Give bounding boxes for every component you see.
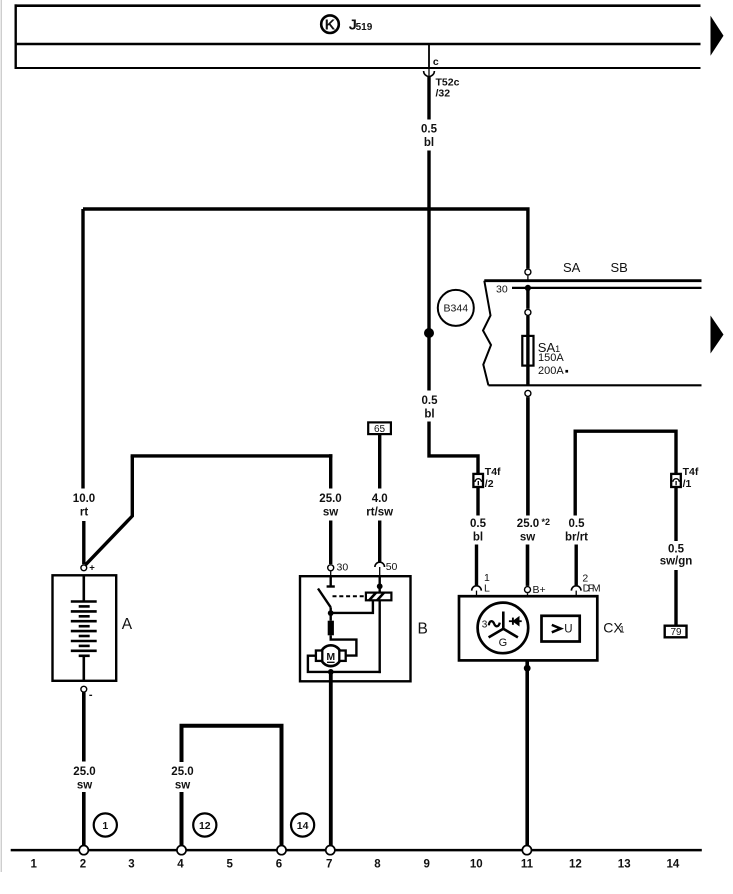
svg-text:12: 12: [569, 859, 582, 871]
coil through wire: [379, 586, 381, 673]
battery internal bottom lead: [83, 656, 86, 681]
svg-text:SB: SB: [611, 260, 628, 275]
svg-text:2: 2: [80, 859, 86, 871]
svg-text:sw/gn: sw/gn: [660, 556, 693, 568]
wire 10.0 rt left vertical: [81, 209, 84, 489]
wire 0.5 bl upper segment: [427, 77, 430, 120]
svg-text:4.0: 4.0: [372, 493, 388, 505]
svg-text:14: 14: [667, 859, 680, 871]
generator circle: [478, 603, 529, 654]
svg-text:rt: rt: [80, 507, 88, 519]
bus continuation arrow top right: [711, 16, 724, 56]
connector T4f/2: [473, 474, 483, 487]
svg-text:30: 30: [337, 561, 349, 573]
switch lever: [318, 589, 331, 608]
svg-text:K: K: [325, 17, 336, 33]
relay B box: [300, 576, 411, 681]
page left edge artifact: [0, 0, 2, 872]
svg-text:sw: sw: [323, 507, 338, 519]
motor left brush tab: [316, 651, 322, 661]
svg-text:10.0: 10.0: [73, 493, 95, 505]
generator Y winding: [489, 612, 518, 638]
svg-text:M: M: [326, 651, 335, 663]
svg-text:/1: /1: [683, 478, 692, 490]
svg-text:SA: SA: [563, 260, 581, 275]
wire 0.5 br/rt DFM loop: [575, 431, 676, 515]
diode symbol: [509, 620, 522, 622]
battery internal top lead: [83, 575, 86, 601]
wire 25.0 sw battery to ground: [82, 692, 86, 761]
svg-text:7: 7: [326, 859, 332, 871]
sine symbol: [489, 621, 500, 626]
svg-text:0.5: 0.5: [470, 518, 487, 530]
svg-text:U: U: [564, 624, 572, 636]
terminal B+ circle: [525, 587, 531, 593]
motor right brush tab: [339, 651, 345, 661]
motor left loop wire: [308, 656, 381, 672]
svg-text:0.5: 0.5: [422, 395, 439, 407]
svg-text:T4f: T4f: [485, 466, 501, 478]
wire resistor to motor: [331, 635, 357, 655]
svg-text:150A: 150A: [538, 352, 564, 364]
contact bar: [327, 585, 335, 587]
coil left terminal wire: [331, 600, 373, 613]
svg-text:0.5: 0.5: [668, 544, 685, 556]
battery A plus terminal: [81, 565, 87, 571]
wire continues down through crossing to splice: [427, 151, 430, 391]
rail terminal 2: [79, 846, 88, 855]
ground loop wire 4-6: [180, 792, 184, 850]
terminal symbol K: [321, 15, 339, 33]
svg-text:1: 1: [620, 625, 625, 635]
svg-text:0.5: 0.5: [421, 124, 438, 136]
svg-text:/32: /32: [436, 87, 451, 99]
svg-text:rt/sw: rt/sw: [366, 507, 393, 519]
svg-text:-: -: [89, 689, 93, 701]
svg-text:/2: /2: [485, 478, 494, 490]
svg-text:13: 13: [618, 859, 631, 871]
svg-text:sw: sw: [175, 780, 190, 792]
svg-text:11: 11: [521, 859, 534, 871]
svg-text:3: 3: [128, 859, 134, 871]
ground point 14: [291, 813, 314, 836]
junction dot at coil top: [377, 583, 383, 589]
svg-text:9: 9: [423, 859, 429, 871]
SA panel top rail: [484, 279, 701, 282]
voltage regulator box: [542, 616, 580, 642]
svg-text:1: 1: [102, 820, 108, 832]
rail terminal 6: [277, 846, 286, 855]
wire relay to ground: [329, 672, 333, 850]
svg-text:50: 50: [386, 561, 398, 573]
battery minus terminal: [81, 686, 87, 692]
svg-text:1: 1: [30, 859, 37, 871]
terminal L connector arch: [472, 586, 482, 591]
svg-text:12: 12: [199, 820, 211, 832]
node c on bus: [428, 44, 430, 68]
terminal circle above fuse: [525, 309, 531, 315]
alternator CX1 box: [459, 596, 597, 660]
ground point 1: [94, 813, 117, 836]
fuse SA1: [522, 336, 533, 366]
terminal circle above top rail: [525, 269, 531, 275]
svg-text:br/rt: br/rt: [565, 532, 588, 544]
svg-text:25.0: 25.0: [171, 766, 193, 778]
connector T52c/32: [424, 71, 435, 76]
resistor (solid): [330, 613, 332, 621]
junction dot below CX1: [524, 665, 531, 672]
svg-text:14: 14: [297, 820, 309, 832]
terminal circle below bottom rail: [525, 390, 531, 396]
svg-text:25.0: 25.0: [73, 766, 95, 778]
SA panel bottom rail: [488, 384, 701, 386]
svg-text:B+: B+: [533, 584, 546, 596]
wire 25.0 sw from fuse to B+: [526, 397, 530, 515]
svg-text:6: 6: [276, 859, 282, 871]
ground rail: [11, 849, 702, 852]
svg-text:*2: *2: [542, 517, 551, 527]
SA panel arrow right: [711, 316, 724, 354]
svg-text:G: G: [499, 637, 508, 649]
svg-text:A: A: [122, 616, 133, 633]
SA panel 30 rail: [512, 287, 702, 289]
wire alternator to ground: [525, 660, 529, 850]
motor output junction dot: [328, 669, 334, 675]
svg-text:30: 30: [496, 283, 508, 295]
wire 0.5 sw/gn: [674, 487, 677, 541]
motor M: [320, 645, 341, 666]
svg-text:8: 8: [374, 859, 381, 871]
svg-text:25.0: 25.0: [319, 493, 341, 505]
terminal 50 connector arch: [375, 562, 385, 567]
svg-text:25.0: 25.0: [517, 518, 539, 530]
terminal DFM connector arch: [571, 586, 581, 591]
svg-text:sw: sw: [520, 532, 535, 544]
SA fuse panel break edge: [483, 281, 491, 386]
junction on 30 rail: [525, 285, 531, 291]
svg-text:B: B: [418, 621, 428, 638]
svg-text:bl: bl: [424, 137, 434, 149]
svg-text:DFM: DFM: [583, 583, 601, 595]
terminal 79 box: [665, 626, 687, 638]
wire 0.5 bl to terminal L: [476, 487, 479, 516]
svg-text:B344: B344: [444, 303, 469, 315]
switch output junction dot: [328, 610, 334, 616]
relay 50 lead-in: [379, 576, 381, 586]
terminal 30 circle on relay: [328, 565, 334, 571]
ground point 12: [193, 813, 216, 836]
svg-text:79: 79: [670, 627, 682, 638]
actuation dashed link: [333, 595, 366, 597]
splice label circle B344: [438, 290, 474, 326]
terminal 65 box: [368, 422, 391, 434]
svg-text:4: 4: [177, 859, 184, 871]
svg-text:bl: bl: [424, 409, 434, 421]
wire battery+ feed horizontal: [83, 209, 528, 268]
grid numbers: [30, 859, 679, 871]
wire 4.0 rt/sw: [378, 434, 381, 488]
wire 30 rail to fuse: [526, 288, 529, 309]
svg-text:200A: 200A: [538, 365, 564, 377]
battery A box: [53, 575, 117, 681]
wire to T4f/2: [429, 422, 478, 474]
svg-text:c: c: [433, 56, 439, 68]
svg-text:0.5: 0.5: [569, 518, 586, 530]
svg-text:sw: sw: [77, 780, 92, 792]
bus J519 top bar: [15, 4, 701, 69]
splice B344 junction dot: [424, 328, 434, 338]
svg-text:T4f: T4f: [683, 466, 699, 478]
svg-text:65: 65: [374, 424, 386, 435]
rail terminal 7: [326, 846, 335, 855]
connector T4f/1: [671, 474, 681, 487]
svg-text:5: 5: [226, 859, 233, 871]
wire 25.0 sw battery to relay (diagonal): [86, 456, 133, 565]
rail terminal 11: [522, 846, 531, 855]
svg-text:L: L: [484, 582, 490, 594]
svg-text:+: +: [89, 562, 95, 573]
relay 30 lead-in: [330, 576, 332, 586]
relay coil: [366, 593, 392, 601]
svg-text:bl: bl: [473, 532, 483, 544]
rail terminal 4: [177, 846, 186, 855]
svg-text:3: 3: [482, 619, 488, 630]
svg-text:10: 10: [470, 859, 483, 871]
svg-text:519: 519: [356, 22, 373, 33]
battery plates: [71, 602, 97, 656]
